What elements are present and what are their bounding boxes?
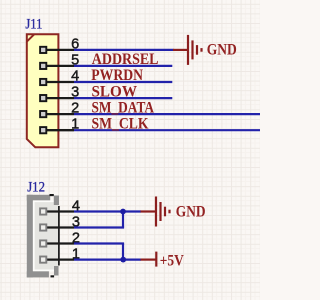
wire pin2 vertical (122, 244, 124, 260)
junction dot lower (120, 257, 126, 263)
svg-text:SLOW: SLOW (92, 83, 138, 100)
power ground symbol top (173, 35, 202, 65)
J12 black face line (58, 206, 60, 266)
J11 pad 6 (40, 47, 46, 53)
wire PWRDN (74, 81, 172, 83)
svg-text:ADDRSEL: ADDRSEL (92, 51, 159, 68)
wire SM_CLK (74, 129, 260, 131)
J12 pad 1 (40, 257, 46, 263)
wire ADDRSEL (74, 65, 172, 67)
J11 pad 5 (40, 63, 46, 69)
svg-text:J11: J11 (25, 17, 42, 33)
J12 pin 3 line (45, 226, 74, 228)
wire pin3 horizontal (74, 226, 124, 228)
J12 pad 2 (40, 240, 46, 246)
J11 pad 1 (40, 127, 46, 133)
J11 pin 6 line (45, 49, 74, 51)
J12 black top mark (50, 194, 54, 196)
wire pin2 horizontal (74, 242, 124, 244)
wire pin4 to GND (74, 210, 141, 212)
J12 top tab (54, 196, 59, 206)
J12 pad 4 (40, 208, 46, 214)
J11 pad 4 (40, 79, 46, 85)
svg-text:PWRDN: PWRDN (91, 67, 143, 84)
svg-text:SM_DATA: SM_DATA (92, 99, 155, 116)
J11 pin 1 line (45, 129, 74, 131)
J12 pad 3 (40, 224, 46, 230)
J11 pad 3 (40, 95, 46, 101)
J12 pin 1 line (45, 258, 74, 260)
svg-text:GND: GND (176, 203, 206, 221)
connector J12 body shell (27, 195, 59, 278)
J12 black bottom mark (51, 275, 55, 277)
wire pin3 vertical (122, 212, 124, 228)
wire pin1 to +5V (74, 259, 141, 261)
+5V power bar (141, 252, 157, 267)
wire SLOW (74, 97, 172, 99)
power ground symbol bottom (141, 197, 170, 227)
J11 pin 2 line (45, 113, 74, 115)
svg-text:J12: J12 (27, 180, 45, 196)
J11 pin 4 line (45, 81, 74, 83)
J12 bottom tab (54, 266, 59, 276)
J11 corner notch line (27, 34, 34, 41)
J12 pin 2 line (45, 242, 74, 244)
svg-text:SM_CLK: SM_CLK (92, 115, 150, 132)
connector J11 body (27, 34, 59, 147)
svg-text:GND: GND (207, 40, 237, 58)
wire pin6 to GND (74, 49, 174, 51)
wire SM_DATA (74, 113, 260, 115)
svg-text:+5V: +5V (160, 252, 184, 270)
J11 pin 5 line (45, 65, 74, 67)
J11 pin 3 line (45, 97, 74, 99)
J12 pin 4 line (45, 210, 74, 212)
junction dot upper (120, 209, 126, 215)
J11 pad 2 (40, 111, 46, 117)
